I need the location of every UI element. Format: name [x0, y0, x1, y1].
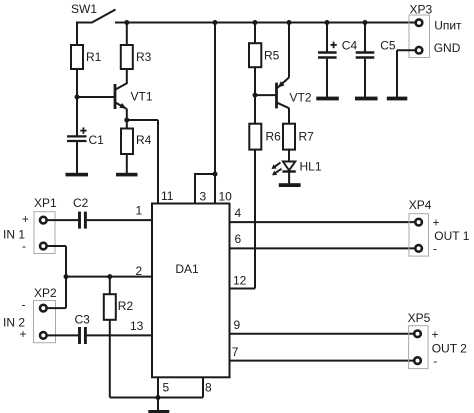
wire pin 7 to XP5-	[230, 360, 414, 362]
svg-text:C5: C5	[380, 39, 396, 53]
DA1 notch pin 3	[195, 174, 215, 204]
svg-text:VT2: VT2	[290, 91, 312, 105]
svg-text:VT1: VT1	[131, 90, 153, 104]
wire pin 4 to XP4+	[230, 221, 415, 223]
LED HL1	[272, 162, 296, 184]
node rail/DA1 drop	[213, 20, 218, 25]
svg-text:R1: R1	[86, 50, 102, 64]
svg-text:R3: R3	[136, 50, 152, 64]
capacitor C1	[67, 127, 87, 141]
connector XP4	[409, 214, 429, 256]
svg-text:-: -	[22, 239, 26, 253]
wire pin 8	[202, 377, 204, 397]
svg-text:HL1: HL1	[300, 160, 322, 174]
svg-text:6: 6	[235, 232, 242, 246]
svg-text:2: 2	[136, 264, 143, 278]
svg-text:+: +	[433, 216, 440, 230]
node notch junction	[213, 172, 218, 177]
wire rail to R5	[254, 23, 256, 44]
svg-text:XP4: XP4	[409, 198, 432, 212]
transistor VT2	[277, 22, 290, 124]
wire emitter to pin 11	[127, 120, 158, 204]
svg-text:C2: C2	[73, 196, 89, 210]
connector XP3	[409, 15, 430, 58]
capacitor C5	[356, 22, 375, 98]
svg-text:4: 4	[235, 206, 242, 220]
wire C2 to pin 1	[87, 219, 152, 221]
capacitor C2	[80, 212, 86, 229]
node rail/C4	[325, 20, 330, 25]
connector XP5	[409, 326, 429, 369]
node R5/VT2 base	[253, 93, 258, 98]
resistor R6	[249, 124, 261, 150]
resistor R4	[121, 129, 133, 155]
svg-text:XP2: XP2	[34, 286, 57, 300]
wire VT2 base	[255, 94, 276, 96]
svg-text:Uпит: Uпит	[434, 19, 462, 33]
svg-text:+: +	[20, 327, 27, 341]
wire pin 6 to XP4-	[230, 247, 415, 249]
ground C5	[355, 97, 378, 101]
svg-text:C4: C4	[342, 39, 358, 53]
resistor R2	[104, 277, 116, 320]
transistor VT1	[115, 69, 127, 120]
svg-text:5: 5	[163, 381, 170, 395]
ground R4	[116, 173, 138, 177]
svg-text:8: 8	[205, 381, 212, 395]
node R1/C1/base junction	[75, 95, 80, 100]
svg-text:GND: GND	[434, 41, 461, 55]
svg-text:R5: R5	[264, 49, 280, 63]
node rail/R5	[253, 20, 258, 25]
svg-text:XP5: XP5	[408, 311, 431, 325]
svg-text:-: -	[433, 242, 437, 256]
wire rail to R3	[126, 23, 128, 46]
svg-text:+: +	[432, 327, 439, 341]
wire R2 bottom to ground line	[109, 320, 111, 398]
connector XP1	[34, 212, 55, 254]
resistor R5	[249, 43, 261, 67]
svg-text:C1: C1	[89, 133, 105, 147]
wire C3 to pin 13	[87, 334, 152, 336]
resistor R1	[71, 45, 83, 69]
wire bottom ground line	[110, 397, 203, 399]
node VT1 emitter junction	[124, 118, 129, 123]
wire R1 bottom to C1	[76, 69, 78, 136]
node XP1-/pin2	[64, 274, 69, 279]
wire XP2- to pin2 net	[47, 307, 66, 309]
node R2/pin2	[107, 274, 112, 279]
wire rail to DA1 notch	[214, 23, 216, 204]
node rail/C5	[363, 20, 368, 25]
svg-text:DA1: DA1	[175, 262, 199, 276]
svg-text:XP3: XP3	[410, 3, 433, 17]
node pin5/ground	[156, 395, 161, 400]
wire XP1- down to pin2 net	[47, 246, 66, 308]
svg-text:10: 10	[219, 190, 233, 204]
wire C1 to ground	[76, 142, 78, 173]
resistor R3	[121, 45, 133, 69]
svg-text:9: 9	[234, 318, 241, 332]
wire XP1+ to C2	[47, 219, 79, 221]
wire R7 to LED	[288, 150, 290, 162]
switch SW1	[77, 10, 116, 24]
svg-text:12: 12	[233, 274, 247, 288]
wire pin 2	[66, 276, 152, 278]
wire emitter to R4	[126, 120, 128, 129]
ground C4	[316, 97, 339, 101]
resistor R7	[283, 124, 295, 150]
svg-text:R7: R7	[299, 130, 315, 144]
capacitor C3	[80, 327, 86, 344]
svg-text:-: -	[22, 298, 26, 312]
svg-text:XP1: XP1	[34, 196, 57, 210]
ground main	[148, 398, 169, 413]
svg-text:R4: R4	[136, 133, 152, 147]
svg-text:OUT 1: OUT 1	[434, 229, 469, 243]
wire base of VT1	[77, 96, 115, 98]
ground XP3	[387, 97, 408, 101]
node rail/R3	[124, 20, 129, 25]
svg-text:R2: R2	[118, 299, 134, 313]
capacitor C4	[318, 22, 337, 98]
wire XP2+ to C3	[47, 334, 79, 336]
svg-text:7: 7	[232, 345, 239, 359]
svg-text:3: 3	[200, 190, 207, 204]
svg-text:11: 11	[161, 189, 174, 203]
wire pin 9 to XP5+	[230, 333, 414, 335]
svg-text:13: 13	[130, 319, 144, 333]
wire XP3 GND to ground	[397, 50, 415, 97]
wire top supply rail	[115, 22, 416, 24]
op-amp U1 DA1 box	[152, 204, 230, 378]
ground HL1	[279, 183, 301, 187]
wire SW1 to R1	[76, 22, 78, 46]
svg-text:+: +	[22, 212, 29, 226]
wire pin 5	[157, 377, 159, 397]
svg-text:-: -	[433, 354, 437, 368]
wire R5 to R6	[254, 67, 256, 124]
ground C1	[66, 173, 89, 177]
svg-text:SW1: SW1	[71, 2, 97, 16]
svg-text:1: 1	[136, 204, 143, 218]
connector XP2	[34, 301, 56, 343]
svg-text:C3: C3	[75, 313, 91, 327]
wire pin 12 to R6	[230, 150, 256, 289]
wire R4 to ground	[126, 154, 128, 173]
node rail/VT2	[287, 20, 292, 25]
svg-text:R6: R6	[266, 130, 282, 144]
